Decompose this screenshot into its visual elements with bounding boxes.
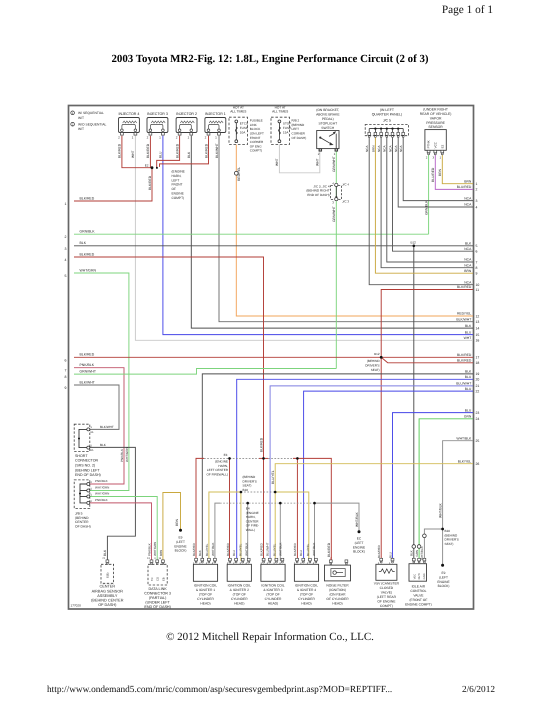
wire GRN/WHT stoplight switch pin 1 down — [335, 151, 337, 368]
svg-text:BRN: BRN — [464, 179, 472, 183]
labels J/C 5 wires — [365, 145, 403, 152]
svg-text:HOT AT: HOT AT — [233, 105, 244, 109]
svg-text:3: 3 — [65, 247, 67, 251]
svg-text:BLK: BLK — [80, 241, 87, 245]
svg-text:11: 11 — [476, 288, 480, 292]
svg-text:(LEFT REAR: (LEFT REAR — [377, 595, 397, 599]
svg-text:4: 4 — [65, 258, 67, 262]
svg-text:19: 19 — [476, 372, 480, 376]
svg-text:J/C 4: J/C 4 — [342, 183, 349, 187]
svg-text:B10: B10 — [445, 529, 451, 533]
wire labels INJECTOR 2 — [175, 143, 191, 158]
wire BLK left pin 3 to right pin 5 through junction B12 — [74, 245, 473, 247]
svg-text:OF FIREWALL): OF FIREWALL) — [206, 472, 228, 476]
svg-text:1: 1 — [334, 152, 336, 156]
svg-text:BRN: BRN — [464, 269, 472, 273]
svg-text:PEDAL): PEDAL) — [322, 117, 334, 121]
wire BLU/RED vapor pressure sensor to right pin 2 — [435, 154, 473, 190]
idle air control valve — [405, 558, 432, 606]
svg-text:BLU: BLU — [159, 151, 163, 158]
svg-text:ETCS: ETCS — [240, 122, 248, 126]
wire labels data link — [147, 542, 162, 556]
svg-text:24: 24 — [476, 417, 480, 421]
junction B12 upper — [411, 240, 417, 247]
svg-text:WHT/BLK: WHT/BLK — [438, 503, 442, 518]
svg-text:2003 Toyota MR2-Fig. 12: 1.8L,: 2003 Toyota MR2-Fig. 12: 1.8L, Engine Pe… — [111, 53, 428, 65]
svg-text:INJECTOR 3: INJECTOR 3 — [147, 112, 168, 116]
wire labels VSV — [377, 544, 392, 558]
svg-text:W/T: W/T — [78, 116, 84, 120]
svg-text:PNK/BLK: PNK/BLK — [95, 479, 108, 483]
wire BLK/WHT injector 1 pin 1 to right pin 13 — [219, 136, 473, 322]
svg-text:18: 18 — [476, 361, 480, 365]
svg-text:OF ENGINE: OF ENGINE — [377, 600, 396, 604]
svg-text:ENGINE: ENGINE — [172, 192, 184, 196]
wire BLK/WHT left pin 9 to short connector — [74, 385, 119, 429]
ground E9 right — [437, 564, 449, 588]
svg-text:GRN/WHT: GRN/WHT — [80, 370, 97, 374]
svg-text:ALL TIMES: ALL TIMES — [230, 110, 246, 114]
footer copyright — [166, 631, 374, 643]
wire NCA J/C 5 to right border — [381, 137, 473, 268]
svg-text:FRONT: FRONT — [172, 183, 183, 187]
svg-text:1: 1 — [476, 182, 478, 186]
wire BLK/RED left pin 4 down to ignition coil 3 — [74, 257, 264, 561]
svg-text:© 2012 Mitchell Repair Informa: © 2012 Mitchell Repair Information Co., … — [166, 631, 374, 643]
svg-text:NCA: NCA — [464, 196, 472, 200]
svg-text:SEAT): SEAT) — [445, 542, 454, 546]
left border pin labels — [65, 196, 97, 390]
svg-text:DRIVER'S: DRIVER'S — [445, 538, 459, 542]
svg-text:(SRS NO. 2): (SRS NO. 2) — [75, 464, 95, 468]
wire BLU right pin 23 to VSV — [393, 413, 474, 561]
svg-text:DATA LINK: DATA LINK — [148, 587, 167, 591]
wire BRN data link connector 3 to ground E9 — [163, 493, 181, 561]
svg-text:PNK/BLK: PNK/BLK — [120, 448, 124, 462]
svg-text:INJECTOR 2: INJECTOR 2 — [176, 112, 197, 116]
label BLK/RED above junction E3 — [259, 437, 263, 452]
wire BLU/WHT ignition coil 3 to right pin 21 — [270, 386, 473, 561]
wire BLK junction B12 down to idle air control valve — [413, 246, 415, 561]
svg-text:NCA: NCA — [365, 145, 369, 152]
svg-text:WHT/GRN: WHT/GRN — [125, 447, 129, 462]
svg-text:& IGNITER 3: & IGNITER 3 — [263, 588, 282, 592]
wire BLK/RED right pin 11 through junction B12 down to VSV — [381, 290, 473, 561]
svg-text:RED/YEL: RED/YEL — [457, 312, 471, 316]
svg-text:WHT/BLK: WHT/BLK — [245, 543, 249, 556]
wire BLK injector 2 pin 1 to right pin 14 — [191, 136, 473, 328]
svg-text:17: 17 — [476, 356, 480, 360]
svg-text:6: 6 — [476, 250, 478, 254]
svg-text:6: 6 — [65, 358, 67, 362]
svg-text:& IGNITER 2: & IGNITER 2 — [230, 588, 249, 592]
svg-text:5: 5 — [65, 274, 67, 278]
wire BLU/YEL ignition coil 1 to bus B10 — [209, 492, 241, 561]
svg-text:VALVE): VALVE) — [381, 591, 392, 595]
svg-text:BLK/RED: BLK/RED — [192, 542, 196, 556]
wire WHT/BLK ignition coil 2 drop — [247, 503, 249, 561]
svg-text:(LEFT: (LEFT — [439, 575, 448, 579]
junction dots on B10 bus — [240, 491, 277, 494]
svg-text:QUARTER PANEL): QUARTER PANEL) — [372, 113, 402, 117]
svg-text:RED/YEL: RED/YEL — [237, 167, 241, 181]
VSV canister closed valve — [374, 558, 400, 608]
svg-text:BLK/RED: BLK/RED — [175, 143, 179, 158]
svg-text:(ENGINE: (ENGINE — [172, 170, 185, 174]
label GRN/WHT below J/C 3 — [332, 206, 336, 222]
svg-text:W/O SEQUENTIAL: W/O SEQUENTIAL — [78, 123, 107, 127]
wire NCA J/C 5 to right border — [403, 137, 473, 200]
svg-text:IDLE AIR: IDLE AIR — [412, 585, 426, 589]
connector rings on idle valve wires — [412, 534, 426, 548]
wire BLK/RED junction B12 to right pin 18 — [381, 357, 473, 363]
svg-text:BLK/WHT: BLK/WHT — [215, 143, 219, 158]
wire WHT/GRN left pin 5 to J/B 5 — [74, 273, 129, 491]
wire NCA J/C 5 to right border — [387, 137, 473, 262]
fuse ETCS 10A (HOT AT ALL TIMES) — [229, 105, 248, 144]
label WHT/BLK idle valve branch — [420, 545, 424, 560]
injector connector INJECTOR 4 — [118, 112, 139, 140]
svg-text:VCC: VCC — [433, 141, 437, 148]
wire labels J/B 5 — [95, 479, 109, 502]
svg-text:ALL TIMES: ALL TIMES — [272, 110, 288, 114]
svg-text:VAPOR: VAPOR — [430, 116, 442, 120]
svg-text:GRN/WHT: GRN/WHT — [332, 206, 336, 222]
wire labels ignition coil 4 — [293, 542, 316, 556]
wire WHT/GRN J/B 5 to data link connector 3 — [90, 497, 157, 561]
svg-text:WHT/BLK: WHT/BLK — [456, 436, 472, 440]
ignition coil and igniter 4 — [294, 558, 319, 605]
svg-text:BLU/YEL: BLU/YEL — [272, 543, 276, 556]
wire NCA J/C 5 to right border — [393, 137, 474, 251]
svg-text:BLK/RED: BLK/RED — [377, 544, 381, 558]
wire BLU/YEL ignition coil 3 drop — [274, 492, 276, 561]
svg-text:WHT: WHT — [316, 158, 320, 166]
svg-text:9: 9 — [65, 386, 67, 390]
label BLK/RED noise filter feed — [327, 542, 331, 557]
svg-text:IGNITION COIL: IGNITION COIL — [261, 584, 284, 588]
svg-text:BLOCK): BLOCK) — [353, 550, 365, 554]
svg-text:NCA: NCA — [464, 280, 472, 284]
footer url and date — [47, 685, 495, 695]
label BLK on airbag sensor drop — [103, 549, 107, 556]
svg-text:1: 1 — [215, 136, 217, 140]
svg-text:REAR OF VEHICLE): REAR OF VEHICLE) — [420, 112, 452, 116]
wire labels INJECTOR 1 — [204, 143, 219, 158]
svg-text:4: 4 — [476, 205, 478, 209]
svg-text:END OF DASH): END OF DASH) — [144, 605, 170, 609]
svg-text:BLK: BLK — [198, 550, 202, 556]
svg-text:EB: EB — [162, 577, 165, 581]
wire RED/YEL from ETCS fuse to right pin 12 — [236, 145, 473, 317]
svg-text:BLK/RED: BLK/RED — [146, 143, 150, 158]
junction dots on E4 bus — [246, 502, 315, 505]
wire NCA J/C 5 to right pin 10 — [369, 137, 473, 285]
svg-text:NCA: NCA — [464, 247, 472, 251]
svg-text:DUTI: DUTI — [418, 573, 421, 579]
wire BLK/RED left pin 6 to right pin 17 through junction B12 — [74, 356, 473, 358]
svg-text:2: 2 — [65, 235, 67, 239]
svg-text:STOPLIGHT: STOPLIGHT — [318, 122, 337, 126]
svg-text:IGNITION COIL: IGNITION COIL — [228, 584, 251, 588]
label RED/YEL — [237, 167, 241, 181]
svg-text:WHT: WHT — [464, 336, 472, 340]
svg-text:WHT/BLK: WHT/BLK — [211, 543, 215, 556]
svg-text:HEAD): HEAD) — [332, 602, 342, 606]
svg-text:BLK: BLK — [465, 324, 472, 328]
svg-text:BLK/RED: BLK/RED — [260, 542, 264, 556]
svg-text:GND: GND — [423, 573, 426, 579]
junction E4 label — [246, 507, 259, 533]
svg-text:STOP: STOP — [283, 122, 291, 126]
legend note 1: W/ SEQUENTIAL W/T — [71, 111, 104, 120]
ignition coil and igniter 1 — [193, 558, 218, 605]
svg-text:CYLINDER: CYLINDER — [197, 597, 214, 601]
wire GRN/BLK vapor pressure sensor drop — [428, 154, 430, 234]
svg-text:BLK: BLK — [410, 550, 414, 556]
svg-text:8: 8 — [65, 375, 67, 379]
svg-text:(ON REAR: (ON REAR — [329, 593, 346, 597]
svg-text:BLK/RED: BLK/RED — [457, 285, 472, 289]
svg-text:7: 7 — [65, 369, 67, 373]
svg-text:E2: E2 — [440, 144, 444, 148]
svg-text:NCA: NCA — [383, 145, 387, 152]
svg-text:LEFT: LEFT — [172, 178, 180, 182]
svg-text:BLU/RED: BLU/RED — [431, 167, 435, 182]
svg-text:BLK/RED: BLK/RED — [259, 437, 263, 452]
svg-text:SENSOR: SENSOR — [428, 125, 443, 129]
svg-text:WHT/BLK: WHT/BLK — [278, 543, 282, 556]
connector ring on RED/YEL wire — [234, 171, 238, 175]
svg-text:END OF DASH): END OF DASH) — [75, 473, 101, 477]
svg-text:5: 5 — [476, 244, 478, 248]
svg-text:15A: 15A — [283, 130, 289, 134]
svg-text:BLK/YEL: BLK/YEL — [458, 459, 472, 463]
data link connector 3 — [144, 557, 171, 609]
label GRN/WHT switch wire — [332, 156, 336, 172]
wire WHT/BLK right pin 25 to ground E9 — [443, 441, 473, 565]
svg-text:ENGINE: ENGINE — [353, 545, 365, 549]
svg-text:B12: B12 — [411, 240, 417, 244]
diagram number 177020 — [71, 603, 82, 607]
svg-text:CONNECTOR: CONNECTOR — [75, 459, 98, 463]
svg-text:1: 1 — [159, 136, 161, 140]
wire BLK/RED bus drop to ignition coil 2 — [229, 458, 231, 561]
connector J/C 5 — [365, 108, 408, 138]
svg-text:BLK: BLK — [100, 443, 107, 447]
svg-text:OF DASH): OF DASH) — [75, 524, 91, 528]
svg-text:BLK/RED: BLK/RED — [293, 542, 297, 556]
svg-text:(FRONT OF: (FRONT OF — [409, 598, 427, 602]
svg-text:NCA: NCA — [464, 203, 472, 207]
svg-text:ABOVE BRAKE: ABOVE BRAKE — [316, 113, 340, 117]
legend note 2: W/O SEQUENTIAL W/T — [71, 122, 107, 131]
svg-text:HEAD): HEAD) — [268, 602, 278, 606]
svg-text:http://www.ondemand5.com/mric/: http://www.ondemand5.com/mric/common/asp… — [47, 685, 392, 695]
svg-text:CG: CG — [157, 577, 160, 581]
svg-text:(TOP OF: (TOP OF — [233, 593, 246, 597]
svg-text:13: 13 — [476, 320, 480, 324]
svg-text:(BEHIND: (BEHIND — [445, 533, 458, 537]
svg-text:BLU/YEL: BLU/YEL — [271, 470, 275, 484]
svg-text:ENGINE: ENGINE — [174, 544, 186, 548]
svg-text:BLK/RED: BLK/RED — [80, 252, 95, 256]
svg-text:WHT/BLK: WHT/BLK — [355, 512, 359, 527]
wire BRN vapor pressure sensor to right pin 1 — [442, 154, 473, 184]
wire BLU/YEL riser to right pin 26 — [275, 464, 473, 492]
svg-text:(ON BRACKET,: (ON BRACKET, — [316, 108, 339, 112]
wire PNK/BLK left pin 7 to J/B 5 — [74, 368, 124, 484]
svg-text:HEAD): HEAD) — [200, 602, 210, 606]
svg-text:BLK/RED: BLK/RED — [226, 542, 230, 556]
junction block J/B 5 — [74, 480, 92, 529]
wire GRN right pin 24 to idle air control valve — [419, 419, 473, 561]
page header "Page 1 of 1" — [442, 4, 493, 16]
svg-text:25: 25 — [476, 439, 480, 443]
ground E9 data link — [174, 529, 186, 553]
wire WHT/BLK ignition coil 4 drop — [314, 503, 316, 561]
svg-text:E3: E3 — [224, 453, 228, 457]
svg-text:E9: E9 — [179, 536, 183, 540]
svg-text:(LEFT: (LEFT — [176, 540, 185, 544]
svg-text:CYLINDER: CYLINDER — [298, 597, 315, 601]
svg-text:BLU: BLU — [299, 550, 303, 556]
svg-text:Page 1 of 1: Page 1 of 1 — [442, 4, 493, 16]
svg-text:20: 20 — [476, 378, 480, 382]
svg-text:16: 16 — [476, 339, 480, 343]
svg-text:CONTROL: CONTROL — [410, 589, 426, 593]
svg-text:W/ SEQUENTIAL: W/ SEQUENTIAL — [78, 111, 104, 115]
svg-text:1: 1 — [132, 136, 134, 140]
svg-text:VSV (CANISTER: VSV (CANISTER — [374, 582, 400, 586]
wire BLK short connector to center airbag sensor — [90, 447, 135, 561]
svg-text:WHT/GRN: WHT/GRN — [80, 268, 97, 272]
svg-text:15: 15 — [476, 333, 480, 337]
svg-text:GRN/WHT: GRN/WHT — [332, 156, 336, 172]
svg-text:BLOCK): BLOCK) — [175, 549, 187, 553]
svg-text:NCA: NCA — [399, 145, 403, 152]
svg-text:SEAT): SEAT) — [371, 368, 380, 372]
wire WHT/BLK ignition coil 3 drop — [279, 503, 281, 561]
svg-text:177020: 177020 — [71, 603, 82, 607]
label J/C 3, J/C 4 location — [306, 184, 329, 197]
stoplight switch — [316, 108, 340, 156]
svg-text:(PARTIAL): (PARTIAL) — [149, 596, 166, 600]
svg-text:CYLINDER: CYLINDER — [265, 597, 282, 601]
svg-text:PNK/BLK: PNK/BLK — [95, 498, 108, 502]
svg-text:EC: EC — [357, 537, 362, 541]
svg-text:(TOP OF: (TOP OF — [266, 593, 279, 597]
wire BLU/YEL ignition coil 2 drop — [240, 492, 242, 561]
svg-text:J/C 3: J/C 3 — [342, 200, 349, 204]
svg-text:OF DASH): OF DASH) — [292, 136, 307, 140]
wire BLK/RED ignition feed bus E3 — [196, 458, 331, 561]
svg-text:BLK: BLK — [187, 151, 191, 158]
svg-text:BLU/YEL: BLU/YEL — [239, 543, 243, 556]
svg-text:& IGNITER 4: & IGNITER 4 — [297, 588, 316, 592]
svg-text:BLK/RED: BLK/RED — [80, 196, 95, 200]
svg-text:VDC: VDC — [413, 574, 416, 580]
label BLU/YEL riser — [271, 470, 275, 484]
svg-text:FUSE: FUSE — [240, 126, 248, 130]
wire BLU ignition coil 2 to right pin 20 — [237, 379, 473, 561]
svg-text:2/6/2012: 2/6/2012 — [462, 685, 495, 695]
svg-text:INJECTOR 4: INJECTOR 4 — [118, 112, 139, 116]
short connector (SRS NO. 2) — [74, 424, 101, 477]
svg-text:BLK: BLK — [465, 370, 472, 374]
svg-text:1: 1 — [65, 202, 67, 206]
diagram title — [111, 53, 428, 65]
wire GRN/WHT left pin 8 to stoplight switch — [74, 369, 336, 375]
junction B10 label — [243, 475, 257, 492]
svg-text:BLOCK): BLOCK) — [438, 584, 450, 588]
svg-text:WHT: WHT — [275, 158, 279, 166]
svg-text:GRN: GRN — [464, 415, 472, 419]
svg-text:(BEHIND LEFT: (BEHIND LEFT — [75, 468, 100, 472]
svg-text:END OF DASH): END OF DASH) — [307, 193, 329, 197]
svg-text:HARN,: HARN, — [172, 174, 182, 178]
wire WHT/BLK bus E4 to ground EC — [315, 503, 360, 531]
svg-text:2: 2 — [176, 136, 178, 140]
wire WHT/BLK bus E4 dashed sections — [220, 502, 315, 504]
wire BLK/RED into noise filter — [330, 557, 333, 560]
svg-text:BLK/RED: BLK/RED — [457, 359, 472, 363]
svg-text:BRN: BRN — [175, 518, 179, 526]
svg-text:BLU: BLU — [465, 375, 472, 379]
fuse STOP 15A (HOT AT ALL TIMES) — [271, 105, 291, 144]
svg-text:& IGNITER 1: & IGNITER 1 — [196, 588, 215, 592]
svg-text:COMPT): COMPT) — [380, 604, 393, 608]
wire WHT stop fuse to stoplight switch pin 2 — [279, 145, 319, 173]
wire labels ignition coil 1 — [192, 542, 215, 556]
svg-text:FUSE: FUSE — [283, 126, 291, 130]
svg-text:BLK/WHT: BLK/WHT — [456, 317, 471, 321]
vapor pressure sensor — [420, 108, 452, 160]
labels vapor sensor wires — [424, 167, 442, 215]
svg-text:3: 3 — [476, 199, 478, 203]
junction B12 lower — [365, 352, 382, 372]
svg-text:HOT AT: HOT AT — [275, 105, 286, 109]
wire BLK/RED injector 2 pin 2 to junction E2 — [157, 136, 180, 168]
svg-text:7: 7 — [476, 260, 478, 264]
svg-text:BLU/WHT: BLU/WHT — [456, 382, 471, 386]
svg-text:AIRBAG SENSOR: AIRBAG SENSOR — [92, 589, 124, 593]
svg-text:BLU: BLU — [465, 387, 472, 391]
svg-text:12: 12 — [476, 314, 480, 318]
label R/B 2 location — [292, 119, 307, 140]
wire PNK/BLK J/B 5 to data link connector 3 — [90, 503, 152, 561]
wire BLK/RED injector 3 pin 2 to junction E2 — [149, 136, 151, 168]
svg-text:GRN: GRN — [415, 550, 419, 557]
junction B10 connector marker — [441, 528, 459, 547]
injector connector INJECTOR 3 — [147, 112, 168, 140]
svg-text:PNK/BLK: PNK/BLK — [80, 363, 95, 367]
svg-text:BLK/RED: BLK/RED — [80, 353, 95, 357]
svg-text:GRN/BLK: GRN/BLK — [80, 230, 96, 234]
svg-text:E(B): E(B) — [107, 573, 110, 578]
label BLK on short connector wire — [100, 443, 107, 447]
wire BLU ignition coil 4 to right pin 22 — [304, 391, 473, 561]
svg-text:8: 8 — [476, 266, 478, 270]
label fusible link block location — [250, 119, 264, 153]
svg-text:(IN LEFT: (IN LEFT — [380, 108, 395, 112]
svg-text:VALVE: VALVE — [413, 594, 424, 598]
svg-text:BLU/YEL: BLU/YEL — [306, 543, 310, 556]
svg-text:ENGINE COMPT): ENGINE COMPT) — [405, 602, 432, 606]
svg-text:BLK/RED: BLK/RED — [148, 175, 152, 190]
svg-text:2: 2 — [118, 136, 120, 140]
junction dots on E3 bus — [228, 457, 299, 460]
